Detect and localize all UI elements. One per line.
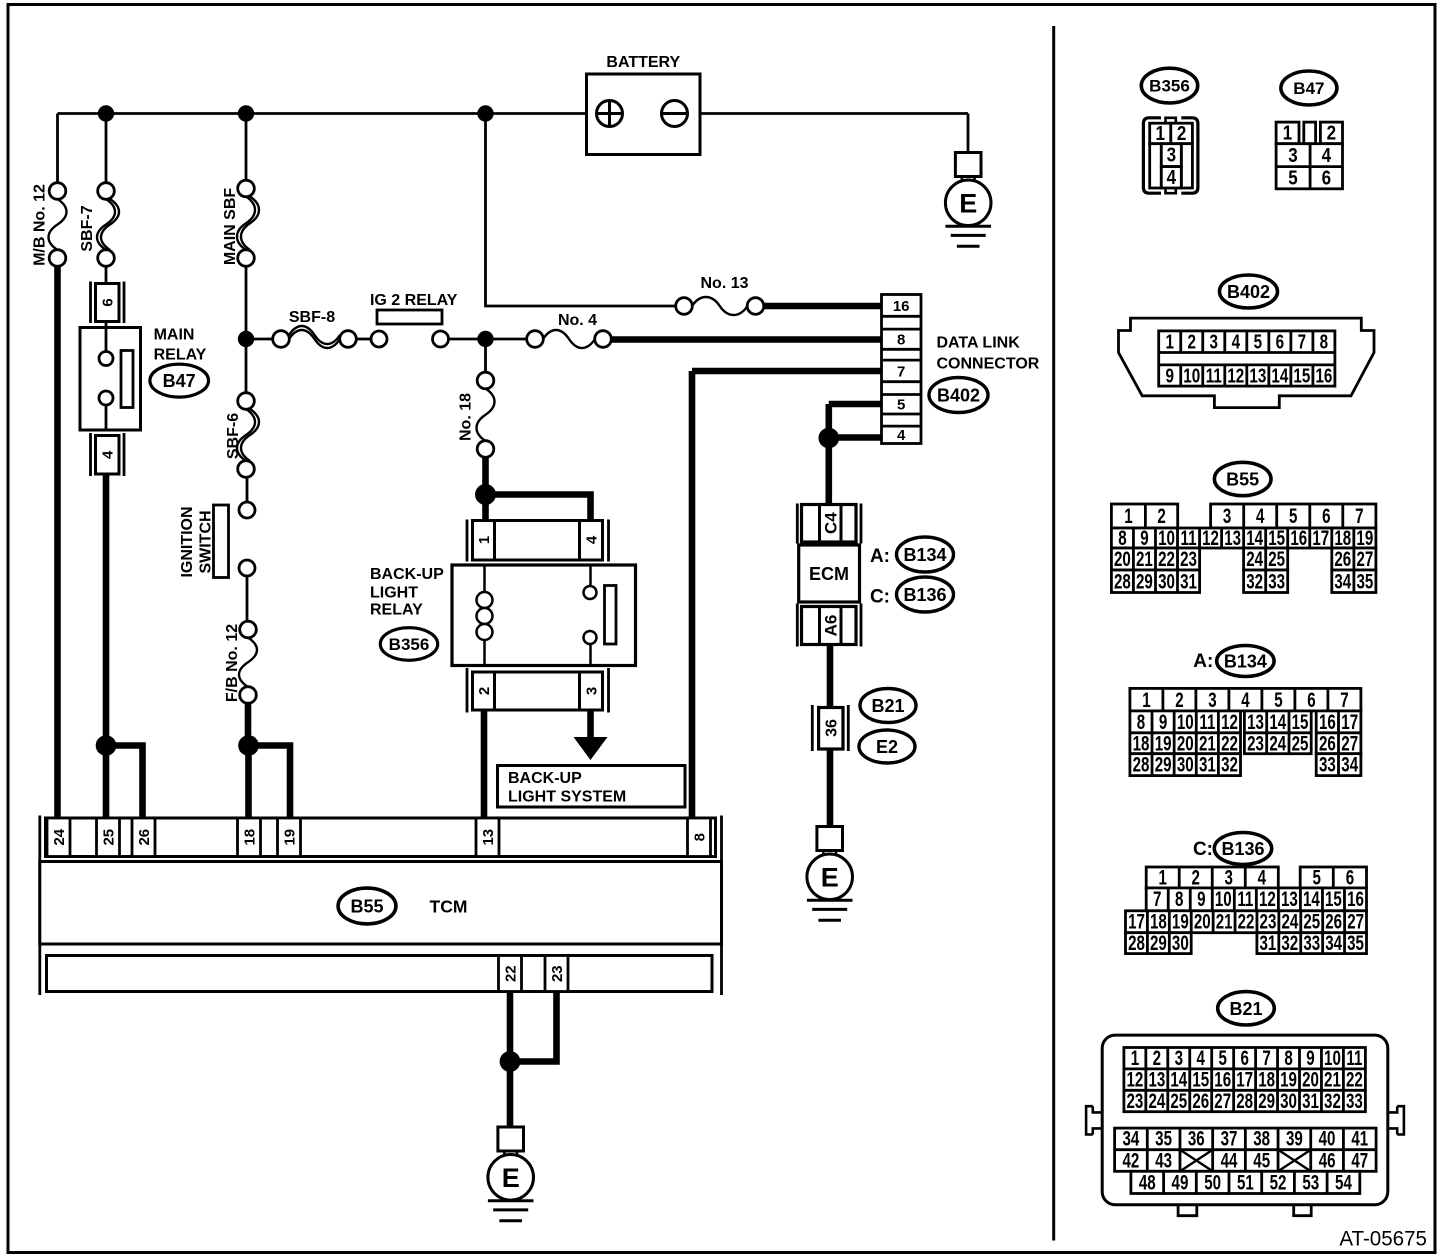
svg-text:C:: C: — [1193, 839, 1213, 860]
svg-text:51: 51 — [1237, 1170, 1254, 1194]
svg-text:23: 23 — [1126, 1088, 1143, 1112]
fuse M/B No. 12 — [49, 183, 67, 267]
svg-text:4: 4 — [1232, 330, 1241, 353]
svg-text:14: 14 — [1271, 364, 1288, 387]
svg-text:16: 16 — [1347, 887, 1364, 911]
svg-text:54: 54 — [1335, 1170, 1352, 1194]
designator B55 (schematic) — [338, 888, 396, 924]
svg-text:32: 32 — [1221, 752, 1238, 776]
wire: DLC pin 4 feed — [829, 434, 882, 441]
wire: junction to TCM pin 25 — [103, 746, 110, 819]
junction: TCM ground — [500, 1051, 521, 1072]
svg-text:16: 16 — [893, 298, 910, 315]
wire: DLC pin 5 to junction — [825, 404, 832, 438]
svg-text:43: 43 — [1155, 1148, 1172, 1172]
connector view B21 designator — [1218, 992, 1275, 1025]
wire: DLC pin 5 feed — [829, 401, 882, 408]
svg-text:MAIN SBF: MAIN SBF — [222, 188, 239, 266]
wire: junction to fuse SBF-8 — [246, 338, 273, 341]
svg-text:24: 24 — [1281, 909, 1298, 933]
svg-text:39: 39 — [1286, 1126, 1303, 1150]
designator B402 (schematic) — [929, 378, 988, 413]
back-up light relay pins 1/4 connector row — [467, 520, 609, 562]
svg-text:37: 37 — [1221, 1126, 1238, 1150]
svg-text:4: 4 — [1167, 166, 1177, 189]
junction: bus / No. 13 feed — [477, 105, 493, 121]
fuse No. 4 — [527, 330, 612, 348]
svg-text:9: 9 — [1165, 364, 1174, 387]
fuse SBF-6 — [237, 393, 259, 478]
ground E (TCM) — [488, 1127, 534, 1221]
svg-text:2: 2 — [1157, 504, 1165, 528]
svg-text:1: 1 — [1283, 121, 1292, 144]
svg-text:3: 3 — [1288, 144, 1297, 167]
svg-text:26: 26 — [1192, 1088, 1209, 1112]
wire: ECM pin A6 to connector 36 — [827, 645, 834, 708]
svg-text:41: 41 — [1351, 1126, 1368, 1150]
svg-text:6: 6 — [1307, 687, 1315, 711]
panel divider line — [1052, 26, 1055, 1241]
svg-text:3: 3 — [1208, 687, 1216, 711]
wire: junction to TCM pin 19 — [249, 746, 291, 819]
ignition switch — [214, 502, 256, 578]
svg-text:B21: B21 — [871, 696, 904, 716]
svg-text:4: 4 — [583, 535, 600, 544]
fuse No. 18 — [477, 372, 495, 457]
svg-text:4: 4 — [897, 427, 906, 444]
junction: TCM pins 25/26 feed — [96, 735, 117, 756]
svg-text:26: 26 — [136, 829, 153, 846]
svg-text:3: 3 — [1167, 143, 1176, 166]
ground E (battery) — [945, 153, 991, 247]
svg-text:6: 6 — [1346, 865, 1354, 889]
svg-text:27: 27 — [1347, 909, 1364, 933]
svg-text:B136: B136 — [903, 585, 946, 605]
wire: DLC pin 7 feed — [692, 368, 882, 375]
svg-text:24: 24 — [1269, 731, 1286, 755]
svg-text:3: 3 — [1210, 330, 1219, 353]
main relay pin 6 connector — [91, 282, 125, 324]
svg-text:7: 7 — [1298, 330, 1307, 353]
svg-text:5: 5 — [1274, 687, 1282, 711]
fuse SBF-7 — [97, 183, 119, 267]
svg-text:22: 22 — [502, 965, 519, 982]
svg-text:29: 29 — [1136, 569, 1153, 593]
svg-text:B356: B356 — [1149, 77, 1190, 96]
wire: junction to TCM pin 18 — [245, 746, 252, 819]
svg-text:C:: C: — [870, 587, 890, 608]
svg-text:5: 5 — [1312, 865, 1320, 889]
svg-text:49: 49 — [1172, 1170, 1189, 1194]
main relay pin 4 connector — [91, 433, 125, 476]
svg-text:B356: B356 — [389, 635, 430, 654]
svg-text:3: 3 — [583, 687, 600, 695]
svg-text:34: 34 — [1122, 1126, 1139, 1150]
svg-text:29: 29 — [1258, 1088, 1275, 1112]
designator B134 (schematic) — [897, 537, 954, 572]
wire: bus to fuse SBF-7 — [105, 114, 108, 184]
box BACK-UP LIGHT SYSTEM — [498, 766, 686, 808]
svg-text:RELAY: RELAY — [154, 347, 207, 364]
wire: junction to ECM pin C4 — [825, 438, 832, 504]
relay contact IG 2 RELAY — [371, 310, 449, 347]
svg-text:19: 19 — [1172, 909, 1189, 933]
svg-text:IG 2 RELAY: IG 2 RELAY — [370, 292, 458, 309]
wire: junction to relay pin 4 — [486, 495, 591, 521]
svg-text:8: 8 — [1175, 887, 1183, 911]
connector pin 36 (B21/E2) — [812, 705, 848, 751]
connector view B136 designator — [1214, 833, 1271, 865]
fuse MAIN SBF — [237, 180, 259, 266]
designator B356 (schematic) — [380, 628, 437, 661]
junction: ECM feed — [819, 428, 840, 449]
svg-text:11: 11 — [1206, 364, 1222, 387]
designator B136 (schematic) — [897, 577, 954, 612]
svg-text:E: E — [502, 1163, 520, 1193]
svg-text:27: 27 — [1356, 547, 1373, 571]
svg-text:B55: B55 — [1226, 469, 1259, 489]
svg-text:33: 33 — [1268, 569, 1285, 593]
ground E (ECM) — [807, 827, 853, 921]
connector view B356 housing — [1143, 118, 1198, 193]
svg-text:6: 6 — [100, 298, 117, 306]
svg-text:25: 25 — [100, 829, 117, 846]
wire: MAIN SBF to SBF-6 — [245, 266, 248, 394]
svg-text:44: 44 — [1221, 1148, 1238, 1172]
designator E2 (schematic) — [859, 730, 915, 763]
svg-text:5: 5 — [1289, 504, 1297, 528]
connector view B402 designator — [1220, 275, 1278, 308]
svg-text:B47: B47 — [163, 371, 196, 391]
svg-text:1: 1 — [1155, 122, 1164, 145]
svg-text:B21: B21 — [1229, 999, 1262, 1019]
svg-text:SBF-7: SBF-7 — [79, 205, 96, 251]
svg-text:12: 12 — [1259, 887, 1276, 911]
svg-text:1: 1 — [1158, 865, 1166, 889]
svg-text:30: 30 — [1177, 752, 1194, 776]
arrow to back-up light system — [574, 737, 608, 760]
svg-text:13: 13 — [1249, 364, 1266, 387]
svg-text:36: 36 — [1188, 1126, 1205, 1150]
connector view B55 designator — [1214, 462, 1271, 495]
TCM pin 8 — [688, 818, 711, 857]
svg-text:4: 4 — [100, 450, 117, 459]
junction: SBF-8 tap — [238, 331, 254, 347]
junction: No. 18 tap — [477, 331, 493, 347]
svg-text:13: 13 — [1224, 526, 1241, 550]
relay MAIN RELAY B47 — [80, 328, 141, 431]
connector view B136 grid — [1126, 865, 1367, 955]
svg-text:LIGHT: LIGHT — [370, 585, 418, 602]
svg-text:18: 18 — [241, 829, 258, 846]
svg-text:34: 34 — [1325, 930, 1342, 954]
svg-text:SWITCH: SWITCH — [197, 510, 214, 573]
svg-text:7: 7 — [897, 363, 905, 380]
svg-text:No. 18: No. 18 — [457, 393, 474, 441]
wire: junction to ground E — [507, 1062, 514, 1128]
svg-text:E: E — [821, 862, 839, 892]
wire: SBF-8 to IG 2 relay contact — [356, 338, 371, 341]
wire: battery to ground E — [967, 114, 970, 153]
B21 blocked cavity X (right) — [1278, 1150, 1311, 1172]
wire: TCM pin 23 to ground junction — [510, 992, 557, 1062]
svg-text:26: 26 — [1325, 909, 1342, 933]
svg-text:47: 47 — [1351, 1148, 1368, 1172]
junction: TCM pins 18/19 feed — [238, 735, 259, 756]
svg-text:14: 14 — [1303, 887, 1320, 911]
svg-text:C4: C4 — [821, 512, 840, 534]
svg-text:RELAY: RELAY — [370, 602, 423, 619]
wire: relay pin 3 to back-up light system — [587, 710, 594, 738]
battery — [587, 54, 701, 155]
wire: ignition switch to fuse F/B No. 12 — [246, 576, 249, 622]
svg-text:32: 32 — [1324, 1088, 1341, 1112]
svg-text:B134: B134 — [903, 545, 946, 565]
svg-text:25: 25 — [1268, 547, 1285, 571]
svg-text:BACK-UP: BACK-UP — [508, 770, 582, 787]
svg-text:No. 13: No. 13 — [700, 275, 748, 292]
svg-text:23: 23 — [549, 965, 566, 982]
svg-text:F/B No. 12: F/B No. 12 — [224, 624, 241, 702]
svg-text:12: 12 — [1227, 364, 1244, 387]
svg-text:8: 8 — [1320, 330, 1329, 353]
svg-text:CONNECTOR: CONNECTOR — [937, 356, 1040, 373]
wire: bus to fuse No. 13 — [486, 114, 677, 307]
svg-text:2: 2 — [1175, 687, 1183, 711]
svg-text:2: 2 — [1327, 121, 1336, 144]
svg-text:8: 8 — [897, 332, 905, 349]
svg-text:30: 30 — [1280, 1088, 1297, 1112]
svg-text:28: 28 — [1133, 752, 1150, 776]
svg-text:10: 10 — [1183, 364, 1200, 387]
svg-text:32: 32 — [1246, 569, 1263, 593]
svg-text:21: 21 — [1136, 547, 1153, 571]
svg-text:31: 31 — [1259, 930, 1276, 954]
svg-text:4: 4 — [1322, 144, 1332, 167]
svg-text:2: 2 — [476, 687, 493, 695]
wire: pin 6 to main relay — [105, 322, 108, 328]
svg-text:24: 24 — [1148, 1088, 1165, 1112]
fuse SBF-8 — [273, 326, 357, 348]
svg-text:35: 35 — [1155, 1126, 1172, 1150]
svg-text:25: 25 — [1292, 731, 1309, 755]
wire: relay pin 2 to TCM pin 13 — [481, 710, 488, 818]
svg-text:46: 46 — [1319, 1148, 1336, 1172]
svg-text:29: 29 — [1155, 752, 1172, 776]
ECM pin C4 connector — [797, 504, 861, 544]
wire: fuse M/B No. 12 to TCM pin 24 — [54, 266, 61, 818]
TCM pin 23 — [545, 956, 568, 992]
svg-text:53: 53 — [1302, 1170, 1319, 1194]
svg-text:4: 4 — [1256, 504, 1265, 528]
connector view B356 designator — [1141, 68, 1197, 103]
svg-text:LIGHT SYSTEM: LIGHT SYSTEM — [508, 789, 626, 806]
svg-text:E: E — [959, 188, 977, 218]
svg-text:SBF-8: SBF-8 — [289, 309, 335, 326]
svg-text:30: 30 — [1158, 569, 1175, 593]
svg-text:AT-05675: AT-05675 — [1339, 1227, 1427, 1250]
wire: connector 36 to ground E — [827, 749, 834, 827]
svg-text:B134: B134 — [1224, 651, 1267, 671]
svg-text:11: 11 — [1237, 887, 1253, 911]
svg-text:A:: A: — [870, 546, 890, 567]
wire: IG 2 relay to fuse No. 4 — [449, 338, 528, 341]
svg-text:6: 6 — [1276, 330, 1285, 353]
connector view B47 housing — [1276, 121, 1342, 189]
svg-text:26: 26 — [1334, 547, 1351, 571]
svg-text:21: 21 — [1216, 909, 1233, 933]
svg-text:19: 19 — [281, 829, 298, 846]
svg-text:DATA LINK: DATA LINK — [937, 335, 1021, 352]
wire: fuse No. 4 to DLC pin 8 — [611, 336, 882, 343]
svg-text:33: 33 — [1319, 752, 1336, 776]
wire: battery bus left segment — [58, 112, 599, 115]
svg-text:A:: A: — [1193, 651, 1213, 672]
svg-text:23: 23 — [1180, 547, 1197, 571]
svg-text:B136: B136 — [1221, 839, 1264, 859]
connector view B21 grid — [1115, 1046, 1377, 1194]
wire: fuse No. 18 to relay junction — [482, 457, 489, 495]
wire: TCM pin 22 to ground junction — [507, 992, 514, 1062]
svg-text:2: 2 — [1192, 865, 1200, 889]
svg-text:38: 38 — [1253, 1126, 1270, 1150]
svg-text:42: 42 — [1122, 1148, 1139, 1172]
relay BACK-UP LIGHT RELAY B356 — [452, 565, 636, 666]
svg-text:33: 33 — [1346, 1088, 1363, 1112]
svg-text:17: 17 — [1128, 909, 1145, 933]
wire: bus to fuse MAIN SBF — [245, 114, 248, 181]
connector view B134 designator — [1217, 646, 1274, 677]
wire: DLC pin 7 to TCM pin 8 — [689, 371, 696, 818]
svg-text:3: 3 — [1225, 865, 1233, 889]
TCM pin 24 — [47, 818, 70, 857]
svg-text:20: 20 — [1194, 909, 1211, 933]
TCM body — [40, 862, 722, 945]
TCM pin 25 — [97, 818, 120, 857]
connector DATA LINK CONNECTOR B402 (schematic) — [882, 295, 922, 445]
svg-text:31: 31 — [1199, 752, 1216, 776]
svg-text:E2: E2 — [876, 737, 898, 757]
ECM pin A6 connector — [797, 604, 861, 647]
svg-text:ECM: ECM — [809, 564, 849, 584]
svg-text:8: 8 — [691, 833, 708, 841]
svg-text:BATTERY: BATTERY — [606, 54, 680, 71]
TCM pin 22 — [499, 956, 522, 992]
wire: SBF-6 to ignition switch — [246, 477, 249, 502]
wire: junction to relay pin 1 — [482, 495, 489, 521]
svg-text:3: 3 — [1223, 504, 1231, 528]
wire: bus to fuse M/B No. 12 — [56, 114, 59, 184]
svg-text:6: 6 — [1322, 166, 1331, 189]
svg-text:31: 31 — [1180, 569, 1197, 593]
svg-text:48: 48 — [1139, 1170, 1156, 1194]
svg-text:40: 40 — [1319, 1126, 1336, 1150]
svg-text:1: 1 — [1165, 330, 1174, 353]
svg-text:24: 24 — [1246, 547, 1263, 571]
svg-text:15: 15 — [1293, 364, 1310, 387]
svg-text:7: 7 — [1355, 504, 1363, 528]
wire: battery bus right segment — [662, 112, 968, 115]
fuse F/B No. 12 — [239, 621, 257, 703]
TCM pin 13 — [476, 818, 499, 857]
svg-text:24: 24 — [51, 828, 68, 845]
svg-text:13: 13 — [1281, 887, 1298, 911]
svg-text:7: 7 — [1340, 687, 1348, 711]
svg-text:18: 18 — [1150, 909, 1167, 933]
svg-text:23: 23 — [1260, 909, 1277, 933]
svg-text:36: 36 — [824, 719, 841, 737]
wire: fuse F/B No. 12 down to junction — [245, 703, 252, 746]
TCM pin 18 — [238, 818, 261, 857]
TCM connector B55 — [40, 816, 722, 996]
svg-text:34: 34 — [1334, 569, 1351, 593]
svg-text:7: 7 — [1153, 887, 1161, 911]
svg-text:No. 4: No. 4 — [558, 312, 597, 329]
svg-text:25: 25 — [1170, 1088, 1187, 1112]
connector view B21 housing — [1086, 1035, 1404, 1216]
svg-text:SBF-6: SBF-6 — [225, 413, 242, 459]
svg-text:23: 23 — [1247, 731, 1264, 755]
svg-text:12: 12 — [1202, 526, 1219, 550]
svg-text:B402: B402 — [937, 385, 980, 405]
junction: bus / SBF-7 — [98, 105, 114, 121]
wire: junction to fuse No. 18 — [484, 339, 487, 373]
TCM pin 19 — [278, 818, 301, 857]
junction: bus / MAIN SBF — [238, 105, 254, 121]
svg-text:6: 6 — [1322, 504, 1330, 528]
svg-text:52: 52 — [1270, 1170, 1287, 1194]
ECM body — [799, 545, 860, 602]
svg-text:13: 13 — [480, 829, 497, 846]
svg-text:16: 16 — [1290, 526, 1307, 550]
svg-text:29: 29 — [1150, 930, 1167, 954]
svg-text:30: 30 — [1172, 930, 1189, 954]
svg-text:B402: B402 — [1227, 282, 1270, 302]
svg-text:4: 4 — [1241, 687, 1250, 711]
svg-text:28: 28 — [1114, 569, 1131, 593]
svg-text:2: 2 — [1188, 330, 1197, 353]
connector view B134 grid — [1130, 687, 1361, 776]
wire: junction to TCM pin 26 — [106, 746, 143, 819]
connector view B402 housing — [1119, 318, 1375, 408]
svg-text:IGNITION: IGNITION — [179, 506, 196, 577]
svg-text:31: 31 — [1302, 1088, 1319, 1112]
svg-text:5: 5 — [1288, 166, 1297, 189]
svg-text:B47: B47 — [1293, 79, 1324, 98]
svg-text:15: 15 — [1325, 887, 1342, 911]
TCM pin 26 — [132, 818, 155, 857]
svg-text:5: 5 — [897, 397, 905, 414]
svg-text:22: 22 — [1158, 547, 1175, 571]
svg-text:17: 17 — [1312, 526, 1329, 550]
svg-text:1: 1 — [476, 536, 493, 544]
svg-text:1: 1 — [1142, 687, 1150, 711]
junction: back-up relay pins 1/4 feed — [475, 484, 496, 505]
svg-text:28: 28 — [1128, 930, 1145, 954]
TCM lower connector row — [47, 956, 713, 992]
svg-text:50: 50 — [1204, 1170, 1221, 1194]
connector view B47 designator — [1281, 71, 1337, 105]
svg-text:5: 5 — [1254, 330, 1263, 353]
wire: relay pin 4 down to junction — [103, 474, 110, 746]
back-up light relay pins 2/3 connector row — [467, 668, 609, 713]
svg-text:28: 28 — [1236, 1088, 1253, 1112]
svg-text:27: 27 — [1214, 1088, 1231, 1112]
svg-text:10: 10 — [1215, 887, 1232, 911]
wire: fuse No. 13 to DLC pin 16 — [764, 303, 882, 310]
svg-text:1: 1 — [1124, 504, 1132, 528]
designator B21 (schematic) — [860, 689, 916, 723]
